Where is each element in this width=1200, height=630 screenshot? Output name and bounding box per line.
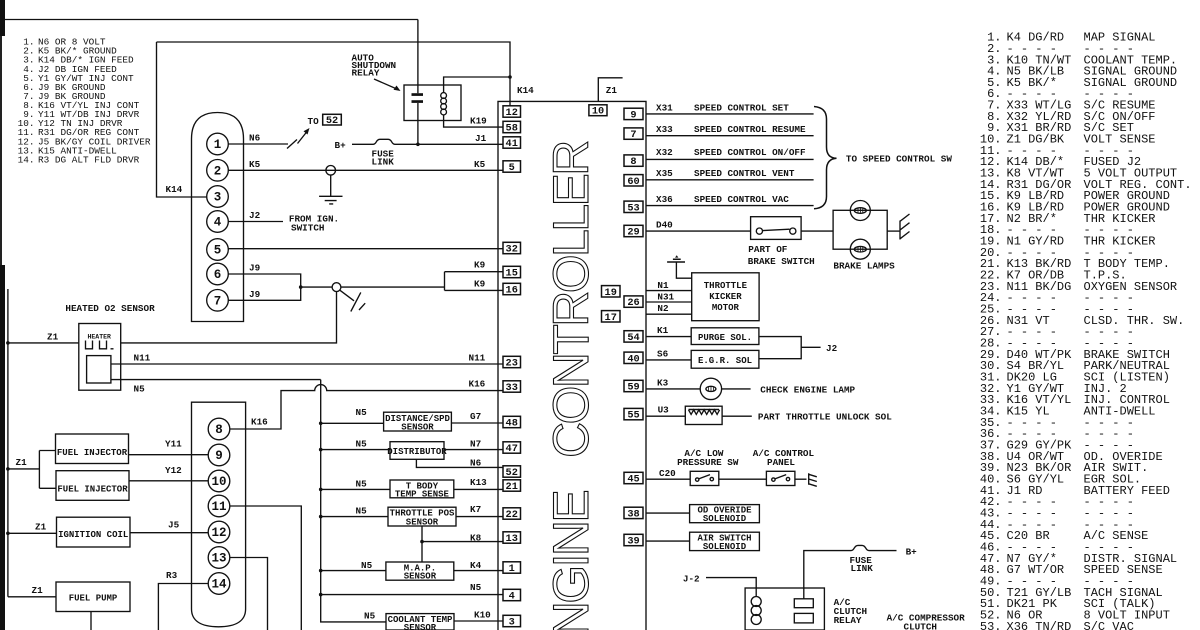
svg-text:X36 TN/RD: X36 TN/RD [1007,620,1072,630]
wire J-2 to A/C clutch relay [706,578,756,596]
label J1 [475,133,487,144]
svg-text:SPEED CONTROL VENT: SPEED CONTROL VENT [694,168,795,179]
svg-text:G7: G7 [470,411,481,422]
pin 39 [624,534,643,545]
svg-text:U3: U3 [658,405,670,416]
wire N5 bus to pin 4 [321,594,503,596]
wire N2 to kicker motor [646,313,692,315]
svg-text:8: 8 [215,423,223,437]
wire pin 5 to pin 32 [228,248,503,250]
O2 sensor inner box [87,356,111,383]
svg-text:B+: B+ [335,140,347,151]
svg-text:FUEL INJECTOR: FUEL INJECTOR [57,484,128,494]
wire to A/C control panel switch [719,478,767,480]
svg-text:38: 38 [627,508,639,520]
wire Y11 injector 1 to pin 9 [129,454,209,456]
svg-text:SWITCH: SWITCH [291,223,324,234]
wire K1 to purge solenoid [646,336,691,338]
svg-text:X32: X32 [656,147,673,158]
part throttle unlock solenoid [685,406,722,424]
svg-text:K9: K9 [474,279,486,290]
svg-text:9: 9 [215,449,223,463]
pin 26 [624,296,643,307]
svg-text:K14: K14 [517,85,534,96]
box 52 reference [323,114,342,125]
wire N5 heater to sensor bus [111,379,321,381]
wire: K14 top line to controller pin 12 [157,42,511,106]
purge solenoid box [691,328,759,345]
svg-text:K7: K7 [470,504,481,515]
node: J9 junction circle [332,283,341,292]
svg-text:22: 22 [506,509,518,521]
svg-text:12: 12 [211,526,226,540]
svg-text:K14: K14 [166,184,183,195]
left pin legend list [18,37,151,166]
svg-text:K1: K1 [657,325,669,336]
check engine lamp [700,378,721,399]
wire Z1 to fuel pump [8,596,56,598]
svg-text:N11: N11 [134,352,151,363]
pin 21 [503,480,521,491]
pin 5 [503,161,521,172]
svg-text:K4: K4 [470,560,482,571]
svg-text:54: 54 [627,332,639,344]
t-body temp sensor box [321,488,390,490]
svg-text:6: 6 [214,268,222,282]
wire J5 coil to pin 12 [130,532,208,534]
wire S6 to EGR solenoid [646,359,691,361]
distance/speed sensor box [321,422,384,424]
wire U3 to part throttle unlock solenoid [646,415,685,417]
wire K7 to pin 22 [456,516,503,518]
wire fuel pump bottom stub [90,612,92,630]
svg-text:BRAKE LAMPS: BRAKE LAMPS [833,260,895,271]
svg-text:Z1: Z1 [47,331,59,342]
svg-text:Z1: Z1 [32,585,44,596]
svg-text:40: 40 [627,353,639,365]
pin 45 [624,472,643,483]
wire G7 to pin 48 [451,422,503,424]
connector C2 shell (pins 8-14) [192,402,246,627]
right pin boxes [602,108,644,547]
wire to OD override solenoid [646,512,690,514]
throttle kicker motor box [692,273,759,321]
svg-text:K16: K16 [469,379,486,390]
wire K13 to pin 21 [454,488,503,490]
wire X33 speed control resume [646,135,814,137]
svg-text:11: 11 [211,500,226,514]
svg-text:45: 45 [627,474,639,486]
A/C clutch relay coil [751,597,761,607]
label AUTO SHUTDOWN RELAY [352,53,397,79]
svg-text:S/C VAC: S/C VAC [1084,620,1134,630]
svg-text:16: 16 [506,285,518,297]
svg-text:N5: N5 [361,560,373,571]
svg-text:X36: X36 [656,194,673,205]
svg-text:29: 29 [627,227,639,239]
pin 13 [503,532,521,543]
pin 32 [503,242,521,253]
arrow to relay [374,79,398,90]
node: junction B+ / relay contact [416,143,420,147]
A/C control panel switch [766,471,795,485]
svg-text:N5: N5 [356,478,368,489]
wire N11 heater to pin 23 [111,363,503,365]
wire N7 to pin 47 [444,449,503,451]
svg-text:LINK: LINK [851,563,874,574]
wire pin 13 down [230,558,268,630]
svg-text:7: 7 [630,129,636,141]
wire Z1 volt sense stub at controller top [598,78,622,102]
svg-text:CLUTCH: CLUTCH [904,621,937,630]
svg-text:4: 4 [214,216,222,230]
svg-text:D40: D40 [656,219,673,230]
pin 3 [503,615,521,626]
chassis ground symbol (A/C) [809,473,817,486]
relay: auto shutdown relay box [404,85,461,121]
svg-text:THROTTLE: THROTTLE [704,281,748,291]
wire Z1 to ignition coil [8,532,57,534]
N5 sensor supply bus [321,380,386,622]
wire X31 speed control set [646,113,814,115]
fuel pump box [56,582,130,612]
wire: relay contact vertical (B+ switched feed) [417,20,419,145]
wire Z1 bus to heater [8,342,79,344]
label N6 [249,133,261,144]
svg-text:SENSOR: SENSOR [404,572,437,582]
svg-text:N5: N5 [356,506,368,517]
pin 7 [624,128,643,139]
svg-text:PANEL: PANEL [767,457,795,468]
wire Y12 injector 2 to pin 10 [129,480,208,482]
svg-text:SENSOR: SENSOR [406,517,439,527]
svg-text:SENSOR: SENSOR [401,423,434,433]
pin 48 [503,416,521,427]
svg-text:N2: N2 [657,303,669,314]
engine controller box [498,101,646,630]
svg-text:SPEED CONTROL ON/OFF: SPEED CONTROL ON/OFF [694,147,806,158]
label K5 right [474,159,486,170]
wire N6 distributor to pin 52 [416,459,503,467]
svg-text:HEATED O2 SENSOR: HEATED O2 SENSOR [65,303,155,314]
svg-text:SPEED CONTROL SET: SPEED CONTROL SET [694,102,789,113]
svg-text:N6: N6 [249,133,261,144]
left pin boxes [503,106,521,629]
svg-text:X31: X31 [656,102,673,113]
wire R3 pin 14 down [158,584,208,630]
brake lamps box [833,210,887,249]
pin 29 [624,225,643,236]
svg-text:LINK: LINK [372,157,395,168]
svg-text:J2: J2 [249,210,261,221]
svg-text:RELAY: RELAY [834,615,862,626]
svg-text:26: 26 [627,297,639,309]
svg-text:PURGE SOL.: PURGE SOL. [698,333,752,343]
wire J9 junction to K9 pins 15/16 [341,272,503,291]
svg-text:S6: S6 [657,348,669,359]
connector C1 shell (pins 1-7) [192,113,244,322]
wire K8 to pin 13 [422,526,503,562]
svg-text:J5: J5 [168,520,180,531]
wire D40 to brake switch [646,230,751,232]
pin 12 [503,106,521,117]
svg-text:K3: K3 [657,377,669,388]
wire N6 from pin 1 with break [228,143,288,145]
svg-text:7: 7 [214,294,222,308]
svg-text:E.G.R. SOL: E.G.R. SOL [698,356,752,366]
connector C1 pin circles [207,133,229,311]
svg-text:PRESSURE SW: PRESSURE SW [677,457,739,468]
svg-text:1: 1 [509,563,515,575]
wire to chassis ground [795,478,807,480]
pin 22 [503,508,521,519]
throttle kicker ground symbol [675,255,678,257]
arrow TO 52 [298,132,308,144]
wire X36 speed control vac [646,205,814,207]
svg-text:K8: K8 [470,532,482,543]
svg-text:60: 60 [627,176,639,188]
pin 17 [602,311,621,322]
chassis hatch at J9 junction [340,290,365,311]
svg-text:MOTOR: MOTOR [712,303,740,313]
svg-text:CONTROLLER: CONTROLLER [543,142,599,458]
pin 40 [624,352,643,363]
ignition coil box [57,517,131,547]
svg-text:2: 2 [214,164,222,178]
pin 1 [503,562,521,573]
brace to speed control switch [814,107,837,209]
wire K10 to pin 3 [454,620,503,622]
wire: K19 relay coil to pin 58 [444,115,503,127]
wire N1 to kicker motor [646,290,692,292]
wire J2 pin 4 stub [228,221,283,223]
svg-text:58: 58 [506,123,518,135]
svg-text:K19: K19 [470,116,487,127]
heated O2 sensor outer box [79,324,121,391]
svg-text:55: 55 [627,410,639,422]
svg-text:SPEED CONTROL VAC: SPEED CONTROL VAC [694,194,789,205]
connector C2 pin circles [208,418,230,594]
svg-text:23: 23 [506,358,518,370]
svg-text:19: 19 [605,287,617,299]
svg-text:TO SPEED CONTROL SW: TO SPEED CONTROL SW [846,153,952,164]
svg-text:48: 48 [506,418,518,430]
fuel injector 1 box [56,434,129,464]
svg-text:N1: N1 [657,280,669,291]
svg-text:N5: N5 [134,384,146,395]
svg-text:KICKER: KICKER [709,292,742,302]
svg-text:5: 5 [214,244,222,258]
svg-text:K5: K5 [474,159,486,170]
label K14 at controller top [517,85,534,96]
svg-text:N11: N11 [469,352,486,363]
pin 8 [624,155,643,166]
pin 16 [503,283,521,294]
label K5 left [249,159,261,170]
svg-text:SENSOR: SENSOR [404,623,437,630]
svg-text:N6: N6 [470,457,482,468]
svg-text:53.: 53. [980,620,1002,630]
svg-text:53: 53 [627,202,639,214]
svg-text:Z1: Z1 [16,457,28,468]
svg-text:X35: X35 [656,168,673,179]
wire brake switch to lamps [801,230,833,232]
svg-text:41: 41 [506,138,518,150]
pin 9 [624,108,643,119]
label FROM IGN. SWITCH [289,214,339,234]
svg-text:K13: K13 [470,477,487,488]
pin 53 [624,201,643,212]
pin 38 [624,507,643,518]
svg-text:N7: N7 [470,439,481,450]
svg-text:PART THROTTLE UNLOCK SOL: PART THROTTLE UNLOCK SOL [758,412,892,423]
svg-text:N5: N5 [356,439,368,450]
throttle position sensor box [321,516,388,518]
svg-text:N31: N31 [657,292,674,303]
pin 54 [624,331,643,342]
svg-text:Z1: Z1 [606,85,618,96]
wire X32 speed control on/off [646,158,814,160]
svg-text:21: 21 [506,481,518,493]
svg-text:J-2: J-2 [683,573,700,584]
svg-text:10: 10 [592,106,604,118]
svg-text:SOLENOID: SOLENOID [703,542,747,552]
svg-text:1: 1 [214,138,222,152]
relay coil [441,93,447,115]
svg-text:R3: R3 [166,570,178,581]
wire K3 to check engine lamp [646,388,700,390]
pin 23 [503,356,521,367]
pin 15 [503,266,521,277]
brake lamp 1 [850,201,870,221]
svg-text:RELAY: RELAY [352,68,380,79]
svg-text:N5: N5 [364,610,376,621]
svg-text:33: 33 [506,382,518,394]
pin 47 [503,442,521,453]
svg-text:12: 12 [506,107,518,119]
svg-text:J9: J9 [249,289,261,300]
brake lamp 2 [850,239,870,259]
wire B+ fuse link to A/C clutch relay [804,545,897,598]
svg-text:TO: TO [308,116,320,127]
EGR solenoid box [691,350,759,368]
air switch solenoid box [690,532,760,550]
svg-text:BRAKE SWITCH: BRAKE SWITCH [748,256,815,267]
pin 58 [503,121,521,132]
pin 10 box [589,105,607,116]
wire Z1 to injectors [8,451,56,489]
wire K16 pin 8 to pin 33 with jump over bus [230,385,503,429]
svg-text:N5: N5 [356,407,368,418]
svg-text:8: 8 [630,156,636,168]
svg-text:3: 3 [214,191,222,205]
node: junction relay line / K14 vertical [508,75,512,79]
svg-text:39: 39 [627,536,639,548]
wire lamps to chassis ground [887,230,900,232]
A/C clutch relay contacts [794,599,813,608]
wire X35 speed control vent [646,179,814,181]
wire K5 pin 2 to pin 5 [228,169,503,171]
wire pin 11 down [230,506,301,630]
svg-text:FUEL INJECTOR: FUEL INJECTOR [57,448,128,458]
wire N31 to kicker motor [646,301,692,303]
svg-text:47: 47 [506,443,518,455]
svg-text:52: 52 [506,467,518,479]
pin 4 [503,589,521,600]
svg-text:15: 15 [506,268,518,280]
wire: K14 drop to connector pin 3 [157,42,207,197]
pin 19 [602,286,621,297]
svg-text:J9: J9 [249,263,261,274]
svg-text:13: 13 [506,533,518,545]
distributor box [321,449,390,451]
svg-text:17: 17 [605,312,617,324]
svg-text:C20: C20 [659,468,676,479]
svg-text:DISTRIBUTOR: DISTRIBUTOR [387,447,447,457]
right pin legend list [980,31,1192,630]
svg-text:R3 DG ALT FLD DRVR: R3 DG ALT FLD DRVR [38,154,140,165]
label K14 at connector [166,184,183,195]
wire B+ fuse link to pin 41 (J1) [352,139,503,144]
svg-text:13: 13 [211,552,226,566]
svg-text:Y12: Y12 [165,465,182,476]
left crop border bar [0,0,5,630]
svg-text:K10: K10 [474,609,491,620]
svg-text:IGNITION COIL: IGNITION COIL [58,530,128,540]
wire C20 to A/C switches [646,478,690,480]
svg-text:J2: J2 [826,343,838,354]
svg-text:14.: 14. [18,154,35,165]
svg-text:3: 3 [509,617,515,629]
brake switch box [751,217,802,240]
svg-text:10: 10 [211,475,226,489]
wire J9 pins 6,7 to ground junction [228,274,332,300]
svg-text:9: 9 [630,109,636,121]
wire to air switch solenoid [646,540,690,542]
pin 52 [503,466,521,477]
heater element [86,341,114,349]
svg-text:59: 59 [627,382,639,394]
relay contact bars [412,93,424,96]
wire J2 bracket [759,337,821,359]
svg-text:4: 4 [509,591,515,603]
pin 55 [624,408,643,419]
wire J9 junction down to heater Z1 line [121,292,337,343]
coolant temp sensor box [386,614,454,630]
svg-text:5: 5 [509,162,515,174]
svg-text:PART OF: PART OF [748,244,787,255]
svg-text:K5: K5 [249,159,261,170]
svg-text:SOLENOID: SOLENOID [703,514,747,524]
chassis ground symbol (brake lamps) [900,214,910,240]
fuel injector 2 box [56,471,129,501]
svg-text:14: 14 [211,578,227,592]
pin 33 [503,381,521,392]
N5 branch junction dots [319,422,323,597]
svg-text:32: 32 [506,244,518,256]
svg-text:K9: K9 [474,259,486,270]
svg-text:SPEED CONTROL RESUME: SPEED CONTROL RESUME [694,124,806,135]
wire: relay coil top to K14 vertical [444,77,510,93]
svg-text:Z1: Z1 [35,522,47,533]
svg-text:TEMP SENSE: TEMP SENSE [395,489,450,499]
labels A/C low pressure sw and control panel [677,448,814,468]
label HEATED O2 SENSOR [65,303,155,314]
label FUSE LINK [372,149,395,168]
A/C clutch relay box [745,588,824,630]
wire: top feed line to relay contact [4,19,418,21]
svg-text:Y11: Y11 [165,439,182,450]
